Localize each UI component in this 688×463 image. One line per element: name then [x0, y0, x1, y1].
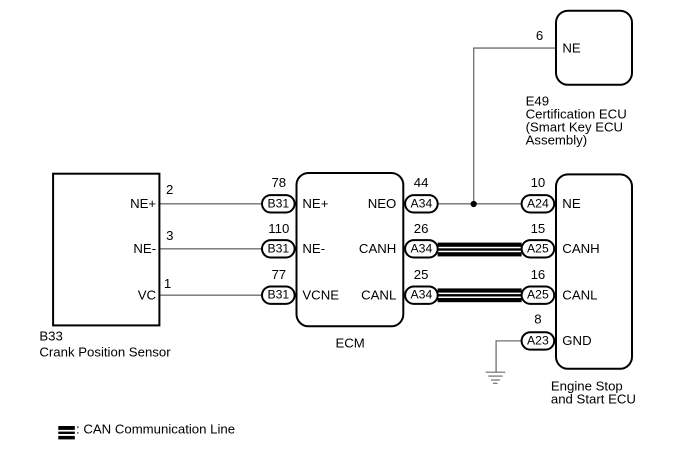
- wire GND (A23 to ground): [496, 341, 521, 372]
- svg-text:A34: A34: [411, 241, 433, 255]
- wire branch to E49 NE: [474, 48, 556, 204]
- Engine Stop and Start ECU block: [556, 174, 632, 368]
- svg-text:GND: GND: [562, 333, 591, 348]
- connector pin A34 (CANH): [405, 240, 438, 257]
- svg-text:NE-: NE-: [302, 241, 325, 256]
- connector pin A23 (GND): [522, 332, 555, 349]
- svg-text:Crank Position Sensor: Crank Position Sensor: [39, 345, 171, 360]
- svg-text:A25: A25: [527, 241, 549, 255]
- svg-text:: CAN Communication Line: : CAN Communication Line: [76, 421, 235, 436]
- svg-text:A34: A34: [411, 196, 433, 210]
- legend CAN symbol: [58, 426, 75, 439]
- connector pin A34 (CANL): [405, 287, 438, 304]
- connector pin B31 (VCNE): [262, 287, 295, 304]
- svg-text:15: 15: [531, 221, 546, 236]
- svg-text:NE+: NE+: [130, 196, 156, 211]
- label Engine Stop and Start ECU caption: [551, 379, 636, 407]
- svg-text:10: 10: [531, 175, 546, 190]
- node junction dot: [471, 201, 477, 207]
- svg-text:A23: A23: [527, 333, 549, 347]
- svg-text:8: 8: [534, 311, 541, 326]
- svg-text:CANL: CANL: [562, 287, 597, 302]
- svg-text:110: 110: [268, 221, 289, 236]
- svg-text:A24: A24: [527, 196, 549, 210]
- ECM block: [297, 173, 404, 326]
- wire NEO row (A34 to A24): [438, 203, 522, 205]
- svg-text:NE: NE: [562, 196, 581, 211]
- svg-text:2: 2: [166, 182, 173, 197]
- svg-text:B31: B31: [267, 241, 289, 255]
- connector block B33 Crank Position Sensor: [53, 174, 159, 326]
- CAN bus line CANL (A34 to A25): [438, 288, 522, 302]
- ground: [486, 372, 506, 383]
- connector pin B31 (NE+): [262, 195, 295, 212]
- CAN bus line CANH (A34 to A25): [438, 243, 522, 257]
- svg-text:26: 26: [414, 221, 429, 236]
- wire VC row (B33 to B31): [159, 294, 263, 296]
- svg-text:NE: NE: [562, 40, 581, 55]
- svg-text:A34: A34: [411, 288, 433, 302]
- svg-text:NE-: NE-: [133, 241, 156, 256]
- svg-text:3: 3: [166, 228, 173, 243]
- svg-text:CANH: CANH: [359, 241, 396, 256]
- svg-text:ECM: ECM: [335, 335, 364, 350]
- label E49 caption: [526, 94, 627, 148]
- svg-text:44: 44: [414, 175, 429, 190]
- svg-text:25: 25: [414, 267, 429, 282]
- connector block E49 Certification ECU: [556, 11, 632, 85]
- svg-text:77: 77: [271, 267, 286, 282]
- svg-text:B31: B31: [267, 196, 289, 210]
- svg-text:6: 6: [536, 28, 543, 43]
- wire NE+ row (B33 to B31): [159, 203, 263, 205]
- svg-text:Assembly): Assembly): [526, 133, 588, 148]
- svg-text:and Start ECU: and Start ECU: [551, 392, 636, 407]
- svg-text:VC: VC: [138, 287, 157, 302]
- svg-text:B31: B31: [267, 288, 289, 302]
- svg-text:VCNE: VCNE: [302, 287, 339, 302]
- connector pin A34 (NEO): [405, 195, 438, 212]
- label B33 caption: [39, 329, 171, 360]
- svg-text:CANL: CANL: [361, 287, 396, 302]
- svg-text:NEO: NEO: [368, 196, 397, 211]
- svg-text:B33: B33: [39, 329, 62, 344]
- wire NE- row (B33 to B31): [159, 248, 263, 250]
- svg-text:NE+: NE+: [302, 196, 328, 211]
- svg-text:1: 1: [164, 276, 171, 291]
- connector pin B31 (NE-): [262, 240, 295, 257]
- svg-text:A25: A25: [527, 288, 549, 302]
- svg-text:CANH: CANH: [562, 241, 599, 256]
- connector pin A25 (CANH): [522, 240, 555, 257]
- svg-text:16: 16: [531, 267, 546, 282]
- svg-text:78: 78: [271, 175, 286, 190]
- connector pin A24 (NE): [522, 195, 555, 212]
- connector pin A25 (CANL): [522, 287, 555, 304]
